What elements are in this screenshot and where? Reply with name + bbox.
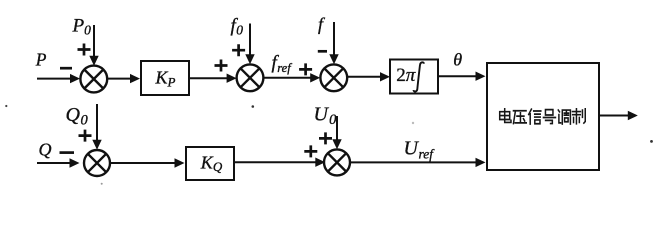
wire integrator to modulator block bbox=[438, 75, 476, 77]
arrowhead P0 into S1 bbox=[89, 56, 98, 66]
scan speck bbox=[252, 105, 255, 108]
wire Q0 into S4 bbox=[96, 104, 98, 142]
arrowhead into KQ bbox=[175, 158, 185, 167]
minus sign at S1 bbox=[60, 67, 72, 70]
arrowhead f0 into S2 bbox=[245, 54, 254, 64]
wire KP to summing junction S2 bbox=[189, 77, 228, 79]
wire f0 into S2 bbox=[249, 24, 251, 56]
char dian bbox=[500, 109, 511, 123]
plus sign before S3 bbox=[299, 63, 312, 75]
wire S4 to block KQ bbox=[110, 162, 176, 164]
char xin bbox=[529, 109, 541, 124]
char zhi bbox=[572, 109, 585, 124]
arrowhead P into S1 bbox=[70, 74, 80, 83]
arrowhead modulator output bbox=[628, 111, 638, 120]
arrowhead into modulator bottom bbox=[476, 158, 486, 167]
plus sign P0 bbox=[78, 44, 91, 56]
scan speck bbox=[412, 122, 414, 124]
wire P0 into S1 bbox=[93, 25, 95, 58]
wire f into S3 bbox=[333, 22, 335, 55]
block KP bbox=[141, 61, 189, 95]
summing junction S4 bbox=[84, 150, 110, 176]
wire KQ to summing junction S5 bbox=[234, 161, 317, 163]
summing junction S1 bbox=[80, 66, 107, 93]
block KQ bbox=[186, 147, 234, 180]
svg-text:θ: θ bbox=[453, 50, 462, 70]
integral sign bbox=[414, 62, 424, 91]
svg-text:2π: 2π bbox=[396, 65, 416, 86]
arrowhead into S2 bbox=[227, 74, 237, 83]
char ya bbox=[513, 111, 526, 124]
arrowhead into modulator top bbox=[476, 72, 486, 81]
svg-text:P: P bbox=[35, 50, 47, 70]
wire S3 to integrator block bbox=[347, 76, 382, 78]
plus sign f0 bbox=[232, 44, 245, 56]
scan speck bbox=[650, 140, 653, 143]
integrator block 2pi bbox=[390, 60, 438, 94]
arrowhead U0 into S5 bbox=[332, 139, 341, 149]
summing junction S2 bbox=[237, 64, 264, 91]
char tiao bbox=[558, 110, 570, 124]
wire modulator output bbox=[599, 115, 629, 117]
arrowhead into S5 bbox=[315, 158, 325, 167]
arrowhead f into S3 bbox=[329, 54, 338, 64]
plus sign before S5 bbox=[304, 145, 317, 157]
wire U0 into S5 bbox=[336, 116, 338, 141]
wire Q into summing junction S4 bbox=[37, 162, 72, 164]
plus sign Q0 bbox=[79, 130, 92, 142]
wire P into summing junction S1 bbox=[37, 78, 72, 80]
minus sign at S3 bbox=[318, 50, 327, 53]
wire S5 to modulator bbox=[350, 161, 476, 163]
modulator block CJK label: 电压信号调制 (drawn as paths) bbox=[500, 109, 586, 124]
char hao bbox=[543, 110, 555, 124]
modulator block bbox=[487, 63, 599, 170]
summing junction S3 bbox=[320, 64, 347, 91]
arrowhead Q0 into S4 bbox=[92, 140, 101, 150]
wire S2 to summing junction S3 bbox=[263, 77, 312, 79]
wire S1 to block KP bbox=[107, 78, 132, 80]
arrowhead into KP bbox=[130, 74, 140, 83]
svg-text:Q: Q bbox=[39, 140, 52, 160]
scan speck bbox=[5, 105, 7, 107]
summing junction S5 bbox=[324, 149, 350, 175]
plus sign before S2 bbox=[215, 60, 228, 72]
arrowhead into integrator bbox=[380, 72, 390, 81]
minus sign at S4 bbox=[60, 151, 75, 154]
scan speck bbox=[101, 183, 103, 185]
arrowhead into S3 bbox=[310, 73, 320, 82]
arrowhead Q into S4 bbox=[70, 158, 80, 167]
plus sign U0 bbox=[319, 132, 332, 144]
